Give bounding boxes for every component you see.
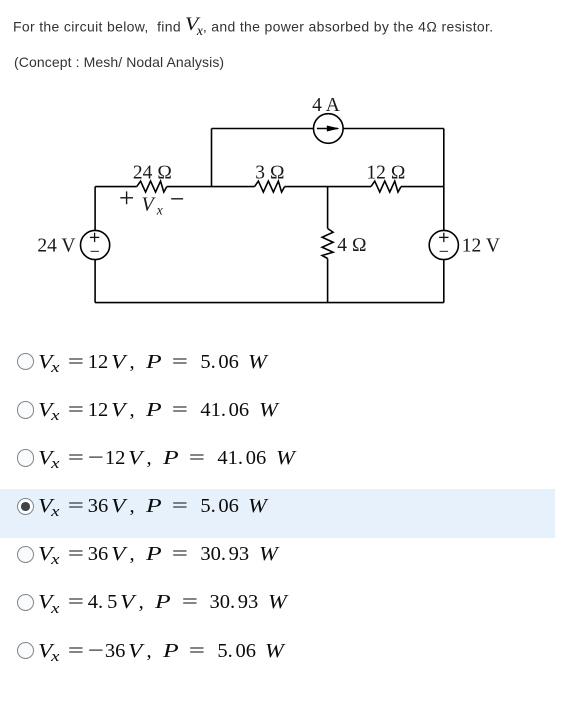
wire left rail upper (94, 187, 96, 231)
svg-text:V: V (142, 194, 157, 216)
svg-text:12 V: 12 V (462, 235, 500, 256)
wire right rail upper (443, 129, 445, 231)
svg-text:3 Ω: 3 Ω (255, 163, 285, 184)
wire main between 24 and 3 (167, 186, 255, 188)
minus sign 24V source (91, 250, 99, 252)
minus sign 12V source (440, 250, 448, 252)
option row (0, 634, 555, 682)
option row (0, 489, 555, 537)
wire top right (343, 128, 444, 130)
current source arrow (317, 126, 340, 132)
plus sign Vx (120, 191, 133, 204)
option row (0, 441, 555, 489)
current source I 4A circle (314, 114, 344, 144)
svg-text:24 V: 24 V (37, 235, 75, 256)
option row (0, 586, 555, 634)
option row (0, 345, 555, 393)
option row (0, 393, 555, 441)
header line 2 (14, 54, 224, 70)
wire top left (212, 128, 314, 130)
wire main left (95, 186, 137, 188)
wire 4ohm branch upper (327, 187, 329, 229)
svg-text:12 Ω: 12 Ω (366, 163, 405, 184)
minus sign Vx (171, 198, 183, 200)
header line 1 (13, 14, 493, 39)
wire main right (401, 186, 444, 188)
voltage source 24V circle (81, 230, 110, 259)
svg-text:x: x (156, 202, 163, 217)
resistor R 12ohm (371, 181, 401, 192)
plus sign 24V source (90, 233, 99, 242)
wire bottom (95, 302, 444, 304)
resistor R 24ohm (137, 181, 167, 192)
resistor R 3ohm (255, 181, 285, 192)
voltage source 12V circle (429, 230, 458, 259)
svg-text:4 Ω: 4 Ω (337, 235, 367, 256)
wire 4ohm branch lower (327, 259, 329, 303)
resistor R 4ohm vertical (322, 229, 333, 259)
option row (0, 537, 555, 585)
plus sign 12V source (439, 233, 448, 242)
wire right rail lower (443, 260, 445, 303)
wire left rail lower (94, 260, 96, 303)
wire top tap vertical (211, 129, 213, 187)
svg-text:4 A: 4 A (312, 95, 340, 116)
svg-text:24 Ω: 24 Ω (133, 163, 172, 184)
circuit schematic (0, 0, 567, 330)
wire main between 3 and 12 (285, 186, 371, 188)
